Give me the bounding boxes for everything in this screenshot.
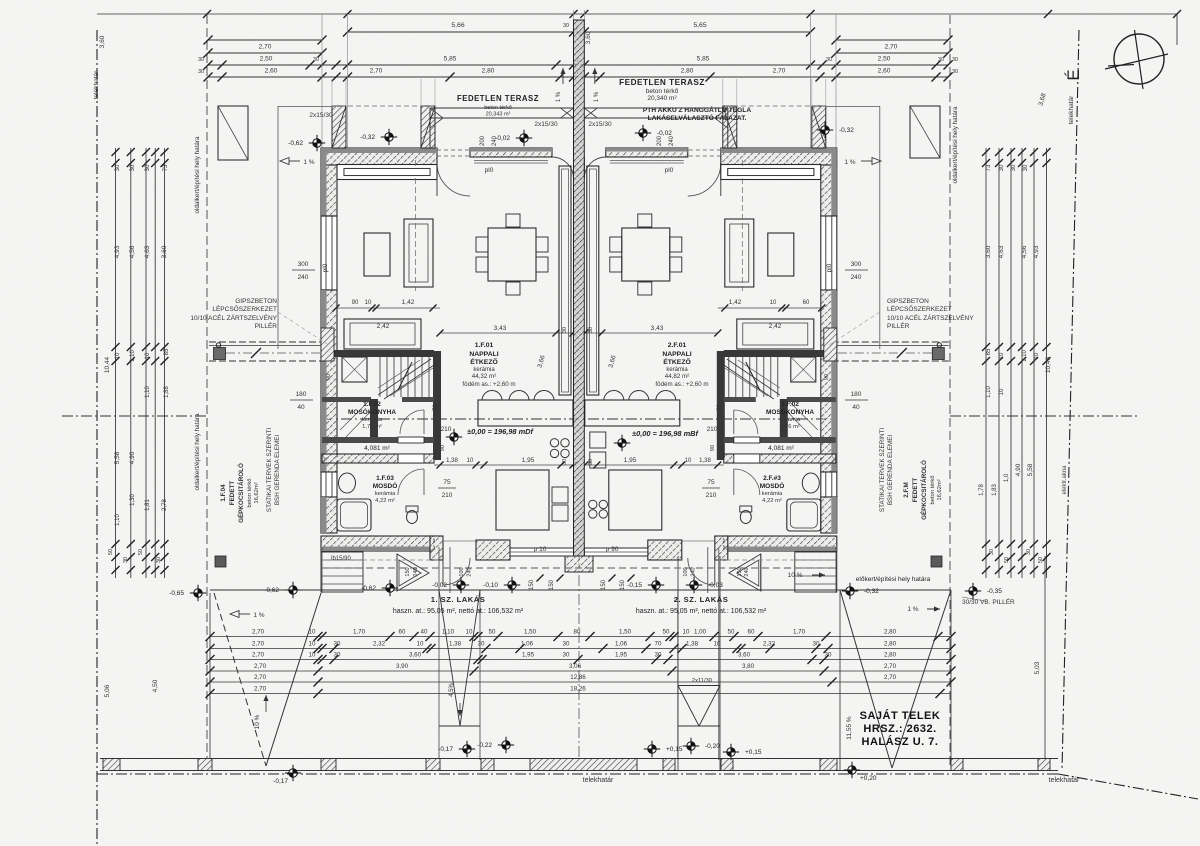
svg-text:telekhatár: telekhatár bbox=[1068, 95, 1075, 124]
svg-text:60: 60 bbox=[399, 628, 406, 635]
svg-text:75: 75 bbox=[707, 479, 715, 486]
svg-text:1,0: 1,0 bbox=[1004, 473, 1010, 482]
svg-text:240: 240 bbox=[467, 567, 473, 576]
svg-text:telekhatár: telekhatár bbox=[1049, 777, 1080, 784]
svg-text:210: 210 bbox=[442, 492, 453, 499]
svg-text:150: 150 bbox=[601, 579, 607, 590]
svg-text:beton térkő: beton térkő bbox=[484, 105, 512, 111]
svg-text:10: 10 bbox=[685, 458, 692, 464]
svg-text:300: 300 bbox=[298, 261, 309, 268]
svg-text:kerámia: kerámia bbox=[362, 417, 383, 423]
svg-text:30: 30 bbox=[198, 69, 204, 75]
svg-text:ÉTKEZŐ: ÉTKEZŐ bbox=[663, 357, 691, 366]
svg-text:30: 30 bbox=[334, 640, 341, 647]
svg-text:1 %: 1 % bbox=[253, 612, 264, 619]
svg-text:180: 180 bbox=[296, 391, 307, 398]
svg-text:haszn. at.: 95,05 m², nettó at: haszn. at.: 95,05 m², nettó at.: 106,532… bbox=[393, 608, 524, 615]
svg-text:5,58: 5,58 bbox=[1027, 463, 1034, 476]
svg-text:±0,00 = 196,98 mDf: ±0,00 = 196,98 mDf bbox=[467, 427, 534, 436]
svg-text:1. SZ. LAKÁS: 1. SZ. LAKÁS bbox=[431, 595, 486, 604]
svg-text:2. SZ. LAKÁS: 2. SZ. LAKÁS bbox=[674, 595, 729, 604]
svg-text:150: 150 bbox=[620, 579, 626, 590]
svg-text:GIPSZBETON: GIPSZBETON bbox=[887, 298, 929, 305]
svg-text:20,340 m²: 20,340 m² bbox=[647, 95, 677, 102]
svg-text:30: 30 bbox=[588, 459, 594, 465]
svg-text:1,06: 1,06 bbox=[615, 640, 628, 647]
svg-text:telekhatár: telekhatár bbox=[583, 777, 614, 784]
svg-text:2,42: 2,42 bbox=[377, 323, 390, 330]
svg-text:1 %: 1 % bbox=[844, 159, 855, 166]
svg-text:pl0: pl0 bbox=[322, 263, 329, 272]
svg-text:60: 60 bbox=[748, 628, 755, 635]
svg-text:4,63: 4,63 bbox=[998, 245, 1005, 258]
svg-text:4,56: 4,56 bbox=[129, 245, 136, 258]
svg-text:2.F.01: 2.F.01 bbox=[668, 342, 687, 349]
svg-text:30: 30 bbox=[563, 23, 569, 29]
svg-text:10: 10 bbox=[365, 300, 372, 306]
svg-text:10: 10 bbox=[145, 352, 151, 359]
svg-text:2,70: 2,70 bbox=[252, 628, 265, 635]
svg-text:lb15/90: lb15/90 bbox=[331, 556, 351, 562]
svg-text:240: 240 bbox=[298, 274, 309, 281]
svg-text:1 %: 1 % bbox=[303, 159, 314, 166]
svg-text:10: 10 bbox=[467, 458, 474, 464]
svg-text:30: 30 bbox=[313, 57, 319, 63]
svg-text:1,76 m²: 1,76 m² bbox=[780, 424, 800, 430]
svg-text:80: 80 bbox=[574, 628, 581, 635]
svg-text:BSH GERENDA ELEMEI: BSH GERENDA ELEMEI bbox=[274, 435, 281, 506]
svg-text:44,32 m²: 44,32 m² bbox=[472, 373, 496, 380]
svg-text:1,38: 1,38 bbox=[449, 640, 462, 647]
svg-text:4,90: 4,90 bbox=[129, 451, 136, 464]
svg-text:4,5%: 4,5% bbox=[449, 683, 455, 697]
svg-text:1.F.04: 1.F.04 bbox=[220, 484, 227, 502]
svg-text:4,22 m²: 4,22 m² bbox=[375, 498, 395, 504]
svg-text:p 50: p 50 bbox=[717, 404, 723, 416]
svg-text:-0,02: -0,02 bbox=[432, 582, 447, 589]
svg-text:1,95: 1,95 bbox=[615, 651, 628, 658]
svg-text:30: 30 bbox=[563, 640, 570, 647]
svg-text:10: 10 bbox=[115, 352, 121, 359]
svg-text:+0,20: +0,20 bbox=[860, 775, 877, 782]
svg-text:2,50: 2,50 bbox=[878, 56, 891, 63]
svg-text:10: 10 bbox=[714, 640, 721, 647]
svg-text:-0,32: -0,32 bbox=[360, 134, 375, 141]
svg-text:2,80: 2,80 bbox=[884, 640, 897, 647]
svg-text:5,06: 5,06 bbox=[104, 684, 111, 697]
svg-text:4,93: 4,93 bbox=[1033, 245, 1040, 258]
svg-text:30: 30 bbox=[989, 549, 995, 555]
svg-text:90: 90 bbox=[824, 374, 830, 380]
svg-text:2,70: 2,70 bbox=[259, 44, 272, 51]
svg-text:30: 30 bbox=[562, 459, 568, 465]
svg-text:LÉPCSŐSZERKEZET: LÉPCSŐSZERKEZET bbox=[887, 304, 952, 313]
svg-text:180: 180 bbox=[851, 391, 862, 398]
svg-text:STATIKAI TERVEK SZERINTI: STATIKAI TERVEK SZERINTI bbox=[879, 428, 886, 512]
svg-text:p 90: p 90 bbox=[606, 546, 619, 553]
svg-text:30: 30 bbox=[952, 57, 958, 63]
svg-text:5,65: 5,65 bbox=[693, 22, 706, 29]
svg-text:10,46: 10,46 bbox=[1045, 356, 1052, 373]
svg-text:1,42: 1,42 bbox=[402, 299, 415, 306]
svg-text:-0,62: -0,62 bbox=[264, 587, 279, 594]
svg-text:2,60: 2,60 bbox=[878, 68, 891, 75]
svg-text:3,43: 3,43 bbox=[651, 325, 664, 332]
svg-text:3,60: 3,60 bbox=[985, 245, 992, 258]
svg-text:2,70: 2,70 bbox=[254, 674, 267, 681]
svg-text:2x15/30: 2x15/30 bbox=[534, 121, 558, 128]
svg-text:1 %: 1 % bbox=[907, 606, 918, 613]
svg-text:3,80: 3,80 bbox=[742, 663, 755, 670]
svg-text:oldalkert/építési hely határa: oldalkert/építési hely határa bbox=[194, 136, 201, 214]
svg-text:p 50: p 50 bbox=[433, 404, 439, 416]
svg-text:4,081 m²: 4,081 m² bbox=[768, 445, 794, 452]
svg-text:kerámia: kerámia bbox=[762, 491, 783, 497]
svg-text:2.F.#3: 2.F.#3 bbox=[763, 475, 781, 482]
svg-text:MOSÓKONYHA: MOSÓKONYHA bbox=[348, 407, 396, 416]
svg-text:300: 300 bbox=[851, 261, 862, 268]
svg-text:1,38: 1,38 bbox=[699, 458, 711, 464]
svg-text:4,22 m²: 4,22 m² bbox=[762, 498, 782, 504]
svg-text:1,00: 1,00 bbox=[694, 628, 707, 635]
svg-text:beton térkő: beton térkő bbox=[646, 88, 679, 95]
svg-text:1,38: 1,38 bbox=[686, 640, 699, 647]
svg-text:2,80: 2,80 bbox=[681, 68, 694, 75]
svg-text:30: 30 bbox=[130, 164, 136, 171]
svg-text:FEDETT: FEDETT bbox=[912, 478, 919, 503]
svg-text:FEDETLEN TERASZ: FEDETLEN TERASZ bbox=[457, 94, 539, 103]
svg-text:oldalkert/építési hely határa: oldalkert/építési hely határa bbox=[194, 413, 201, 491]
svg-text:4,56: 4,56 bbox=[1021, 245, 1028, 258]
svg-text:16,62m²: 16,62m² bbox=[254, 482, 260, 503]
svg-text:40: 40 bbox=[852, 404, 860, 411]
svg-text:HALÁSZ U. 7.: HALÁSZ U. 7. bbox=[862, 735, 939, 748]
svg-text:MOSDÓ: MOSDÓ bbox=[373, 481, 398, 490]
svg-text:10 %: 10 % bbox=[788, 572, 803, 579]
svg-text:30: 30 bbox=[563, 651, 570, 658]
svg-text:2,70: 2,70 bbox=[252, 640, 265, 647]
svg-text:-0,35: -0,35 bbox=[987, 588, 1002, 595]
svg-text:2,70: 2,70 bbox=[773, 68, 786, 75]
svg-text:SAJÁT TELEK: SAJÁT TELEK bbox=[860, 709, 941, 722]
svg-text:2x15/30: 2x15/30 bbox=[309, 112, 333, 119]
svg-text:30: 30 bbox=[1023, 164, 1029, 171]
svg-text:-0,10: -0,10 bbox=[483, 582, 498, 589]
svg-text:-0,03: -0,03 bbox=[708, 582, 723, 589]
svg-text:2,70: 2,70 bbox=[370, 68, 383, 75]
svg-text:1,10: 1,10 bbox=[986, 386, 992, 398]
svg-text:30: 30 bbox=[478, 640, 485, 647]
svg-text:30: 30 bbox=[156, 557, 162, 563]
svg-text:-0,22: -0,22 bbox=[477, 742, 492, 749]
svg-text:60: 60 bbox=[803, 300, 810, 306]
svg-text:3,60: 3,60 bbox=[99, 35, 106, 48]
svg-text:3,60: 3,60 bbox=[585, 31, 592, 44]
svg-text:30: 30 bbox=[588, 327, 594, 333]
svg-text:-0,17: -0,17 bbox=[438, 746, 453, 753]
svg-text:30: 30 bbox=[655, 651, 662, 658]
svg-text:haszn. at.: 95,05 m², nettó at: haszn. at.: 95,05 m², nettó at.: 106,532… bbox=[636, 608, 767, 615]
svg-text:1,10: 1,10 bbox=[1022, 350, 1028, 362]
svg-text:beton térkő: beton térkő bbox=[247, 478, 253, 507]
svg-text:p 10: p 10 bbox=[534, 546, 547, 553]
svg-text:1,76 m²: 1,76 m² bbox=[362, 424, 382, 430]
svg-text:GIPSZBETON: GIPSZBETON bbox=[235, 298, 277, 305]
svg-text:BSH GERENDA ELEMEI: BSH GERENDA ELEMEI bbox=[887, 435, 894, 506]
svg-text:30: 30 bbox=[562, 327, 568, 333]
svg-text:LÉPCSŐSZERKEZET: LÉPCSŐSZERKEZET bbox=[212, 304, 277, 313]
svg-text:3,90: 3,90 bbox=[396, 663, 409, 670]
svg-text:kerámia: kerámia bbox=[375, 491, 396, 497]
svg-text:2x11/30: 2x11/30 bbox=[692, 678, 712, 684]
svg-text:1,95: 1,95 bbox=[624, 457, 637, 464]
svg-text:40: 40 bbox=[421, 628, 428, 635]
svg-text:10: 10 bbox=[1034, 352, 1040, 359]
svg-text:1,42: 1,42 bbox=[729, 299, 742, 306]
svg-text:-0,65: -0,65 bbox=[169, 590, 184, 597]
svg-text:1,10: 1,10 bbox=[130, 350, 136, 362]
svg-text:-0,32: -0,32 bbox=[839, 127, 854, 134]
svg-text:30: 30 bbox=[999, 164, 1005, 171]
svg-text:ÉTKEZŐ: ÉTKEZŐ bbox=[470, 357, 498, 366]
svg-text:210: 210 bbox=[707, 426, 718, 433]
svg-text:pl0: pl0 bbox=[665, 167, 674, 174]
svg-text:1,10: 1,10 bbox=[145, 386, 151, 398]
svg-text:18,26: 18,26 bbox=[570, 685, 586, 692]
svg-text:HRSZ.: 2632.: HRSZ.: 2632. bbox=[863, 723, 936, 735]
svg-text:2,70: 2,70 bbox=[885, 44, 898, 51]
svg-text:50: 50 bbox=[1004, 557, 1010, 563]
svg-text:+0,15: +0,15 bbox=[666, 746, 683, 753]
svg-text:beton térkő: beton térkő bbox=[930, 475, 936, 504]
svg-text:210: 210 bbox=[706, 492, 717, 499]
svg-text:2.F.M: 2.F.M bbox=[903, 482, 910, 497]
svg-text:30: 30 bbox=[1011, 164, 1017, 171]
svg-text:30: 30 bbox=[826, 57, 832, 63]
svg-text:150: 150 bbox=[405, 567, 411, 576]
svg-text:3,43: 3,43 bbox=[494, 325, 507, 332]
svg-text:4,93: 4,93 bbox=[114, 245, 121, 258]
svg-text:10: 10 bbox=[999, 352, 1005, 359]
svg-text:73: 73 bbox=[986, 164, 992, 171]
svg-text:2,80: 2,80 bbox=[884, 651, 897, 658]
svg-text:1.F.03: 1.F.03 bbox=[376, 475, 394, 482]
svg-text:73: 73 bbox=[163, 164, 169, 171]
svg-text:30: 30 bbox=[1026, 549, 1032, 555]
svg-text:3,60: 3,60 bbox=[738, 651, 751, 658]
svg-text:240: 240 bbox=[691, 567, 697, 576]
svg-text:-0,32: -0,32 bbox=[864, 588, 879, 595]
svg-text:10,44: 10,44 bbox=[104, 356, 111, 373]
svg-text:1,95: 1,95 bbox=[522, 651, 535, 658]
svg-text:1,83: 1,83 bbox=[992, 484, 998, 496]
svg-text:240: 240 bbox=[851, 274, 862, 281]
svg-text:4,90: 4,90 bbox=[1015, 463, 1022, 476]
svg-text:240: 240 bbox=[413, 567, 419, 576]
svg-text:3,60: 3,60 bbox=[409, 651, 422, 658]
svg-text:1 %: 1 % bbox=[594, 91, 600, 102]
svg-text:10 %: 10 % bbox=[254, 714, 261, 729]
svg-text:150: 150 bbox=[737, 567, 743, 576]
svg-text:PTH AKKU Z HANGGÁTLÓ TÉGLA: PTH AKKU Z HANGGÁTLÓ TÉGLA bbox=[643, 105, 751, 114]
svg-text:4,081 m²: 4,081 m² bbox=[364, 445, 390, 452]
svg-text:90: 90 bbox=[326, 374, 332, 380]
svg-text:1,95: 1,95 bbox=[522, 457, 535, 464]
svg-text:kerámia: kerámia bbox=[780, 417, 801, 423]
svg-text:4,50: 4,50 bbox=[152, 679, 159, 692]
svg-text:3,06: 3,06 bbox=[569, 663, 582, 670]
svg-text:-0,17: -0,17 bbox=[273, 778, 288, 785]
svg-text:1,10: 1,10 bbox=[442, 628, 455, 635]
svg-text:1,06: 1,06 bbox=[521, 640, 534, 647]
svg-text:50: 50 bbox=[663, 628, 670, 635]
svg-text:födém as.: +2,60 m: födém as.: +2,60 m bbox=[655, 381, 708, 388]
svg-text:2,70: 2,70 bbox=[884, 663, 897, 670]
svg-text:-0,02: -0,02 bbox=[657, 130, 672, 137]
svg-text:10: 10 bbox=[683, 628, 690, 635]
svg-text:2,32: 2,32 bbox=[763, 640, 776, 647]
svg-text:-0,20: -0,20 bbox=[705, 743, 720, 750]
svg-text:20,343 m²: 20,343 m² bbox=[486, 112, 511, 118]
svg-text:4,63: 4,63 bbox=[144, 245, 151, 258]
svg-text:210: 210 bbox=[441, 426, 452, 433]
svg-text:oldalkert/építési hely határa: oldalkert/építési hely határa bbox=[952, 106, 959, 184]
svg-text:PILLÉR: PILLÉR bbox=[887, 321, 910, 330]
svg-text:1,10: 1,10 bbox=[115, 514, 121, 526]
svg-text:85: 85 bbox=[986, 348, 992, 355]
svg-text:elektr.akna: elektr.akna bbox=[1062, 465, 1068, 495]
svg-text:12,86: 12,86 bbox=[570, 674, 586, 681]
svg-text:-0,62: -0,62 bbox=[361, 585, 376, 592]
svg-text:70: 70 bbox=[655, 640, 662, 647]
svg-text:2,70: 2,70 bbox=[254, 663, 267, 670]
svg-text:MOSDÓ: MOSDÓ bbox=[760, 481, 785, 490]
svg-text:11,55 %: 11,55 % bbox=[846, 716, 853, 740]
svg-text:2,32: 2,32 bbox=[373, 640, 386, 647]
svg-text:1 %: 1 % bbox=[556, 91, 562, 102]
svg-text:2,78: 2,78 bbox=[162, 499, 168, 511]
svg-text:5,66: 5,66 bbox=[451, 22, 464, 29]
svg-text:telekhatár: telekhatár bbox=[93, 70, 100, 99]
svg-text:1,50: 1,50 bbox=[619, 628, 632, 635]
svg-text:10: 10 bbox=[309, 640, 316, 647]
svg-text:85: 85 bbox=[164, 348, 170, 355]
svg-text:90: 90 bbox=[440, 445, 446, 451]
svg-text:-0,02: -0,02 bbox=[495, 135, 510, 142]
svg-text:2,42: 2,42 bbox=[769, 323, 782, 330]
svg-text:30: 30 bbox=[938, 57, 944, 63]
svg-text:5,03: 5,03 bbox=[1034, 661, 1041, 674]
svg-text:FEDETT: FEDETT bbox=[229, 481, 236, 506]
svg-text:1,30: 1,30 bbox=[130, 494, 136, 506]
svg-text:30: 30 bbox=[123, 557, 129, 563]
svg-text:10: 10 bbox=[417, 640, 424, 647]
svg-text:1,50: 1,50 bbox=[524, 628, 537, 635]
svg-text:10/10 ACÉL ZÁRTSZELVÉNY: 10/10 ACÉL ZÁRTSZELVÉNY bbox=[887, 313, 974, 322]
svg-text:50: 50 bbox=[1038, 557, 1044, 563]
svg-text:44,82 m²: 44,82 m² bbox=[665, 373, 689, 380]
svg-text:10: 10 bbox=[770, 300, 777, 306]
svg-text:50: 50 bbox=[728, 628, 735, 635]
svg-text:30: 30 bbox=[198, 57, 204, 63]
svg-text:30: 30 bbox=[952, 69, 958, 75]
svg-text:1,81: 1,81 bbox=[145, 499, 151, 511]
svg-text:PILLÉR: PILLÉR bbox=[255, 321, 278, 330]
svg-text:1,70: 1,70 bbox=[353, 628, 366, 635]
svg-text:2.F.02: 2.F.02 bbox=[781, 401, 799, 408]
svg-text:40: 40 bbox=[297, 404, 305, 411]
svg-text:10: 10 bbox=[999, 388, 1005, 395]
svg-text:GÉPKOCSITÁROLÓ: GÉPKOCSITÁROLÓ bbox=[236, 463, 245, 523]
svg-text:2,70: 2,70 bbox=[254, 685, 267, 692]
svg-text:+0,15: +0,15 bbox=[745, 749, 762, 756]
svg-text:50: 50 bbox=[138, 549, 144, 555]
svg-text:1,70: 1,70 bbox=[793, 628, 806, 635]
svg-text:MOSÓKONYHA: MOSÓKONYHA bbox=[766, 407, 814, 416]
svg-text:30: 30 bbox=[115, 164, 121, 171]
svg-text:1,78: 1,78 bbox=[979, 484, 985, 496]
svg-text:előkert/építési hely határa: előkert/építési hely határa bbox=[856, 576, 931, 583]
svg-text:90: 90 bbox=[710, 445, 716, 451]
svg-text:1.F.01: 1.F.01 bbox=[475, 342, 494, 349]
svg-text:±0,00 = 196,98 mBf: ±0,00 = 196,98 mBf bbox=[632, 429, 699, 438]
svg-text:2,60: 2,60 bbox=[265, 68, 278, 75]
svg-text:LAKÁSELVÁLASZTÓ FALAZAT.: LAKÁSELVÁLASZTÓ FALAZAT. bbox=[648, 113, 747, 122]
svg-text:2,50: 2,50 bbox=[260, 56, 273, 63]
svg-text:NAPPALI: NAPPALI bbox=[469, 351, 498, 358]
svg-text:50: 50 bbox=[489, 628, 496, 635]
svg-text:30: 30 bbox=[145, 164, 151, 171]
svg-text:240: 240 bbox=[744, 567, 750, 576]
svg-text:NAPPALI: NAPPALI bbox=[662, 351, 691, 358]
svg-text:3,60: 3,60 bbox=[161, 245, 168, 258]
svg-text:GÉPKOCSITÁROLÓ: GÉPKOCSITÁROLÓ bbox=[919, 460, 928, 520]
svg-text:-0,62: -0,62 bbox=[288, 140, 303, 147]
svg-text:100: 100 bbox=[683, 567, 689, 576]
svg-text:200: 200 bbox=[480, 135, 486, 146]
svg-text:FEDETLEN TERASZ: FEDETLEN TERASZ bbox=[619, 78, 705, 87]
svg-text:STATIKAI TERVEK SZERINTI: STATIKAI TERVEK SZERINTI bbox=[266, 428, 273, 512]
svg-text:1,38: 1,38 bbox=[446, 458, 458, 464]
svg-text:10: 10 bbox=[466, 628, 473, 635]
svg-text:30: 30 bbox=[334, 651, 341, 658]
svg-text:150: 150 bbox=[529, 579, 535, 590]
svg-text:16,62m²: 16,62m² bbox=[937, 479, 943, 500]
svg-text:10/10 ACÉL ZÁRTSZELVÉNY: 10/10 ACÉL ZÁRTSZELVÉNY bbox=[190, 313, 277, 322]
svg-text:2,70: 2,70 bbox=[252, 651, 265, 658]
svg-text:100: 100 bbox=[459, 567, 465, 576]
svg-text:10: 10 bbox=[309, 651, 316, 658]
svg-text:2,80: 2,80 bbox=[884, 628, 897, 635]
svg-text:pl0: pl0 bbox=[485, 167, 494, 174]
svg-text:90: 90 bbox=[352, 300, 359, 306]
svg-text:10: 10 bbox=[309, 628, 316, 635]
svg-text:födém as.: +2,60 m: födém as.: +2,60 m bbox=[462, 381, 515, 388]
svg-text:2,80: 2,80 bbox=[482, 68, 495, 75]
svg-text:1.F.02: 1.F.02 bbox=[363, 401, 381, 408]
svg-text:5,58: 5,58 bbox=[114, 451, 121, 464]
svg-text:75: 75 bbox=[443, 479, 451, 486]
svg-text:30: 30 bbox=[813, 640, 820, 647]
svg-text:50: 50 bbox=[108, 549, 114, 555]
svg-text:5,85: 5,85 bbox=[697, 56, 710, 63]
svg-text:2,70: 2,70 bbox=[884, 674, 897, 681]
svg-text:2x15/30: 2x15/30 bbox=[588, 121, 612, 128]
svg-text:-0,15: -0,15 bbox=[627, 582, 642, 589]
svg-text:150: 150 bbox=[549, 579, 555, 590]
svg-text:É: É bbox=[1064, 69, 1083, 80]
svg-text:5,85: 5,85 bbox=[444, 56, 457, 63]
